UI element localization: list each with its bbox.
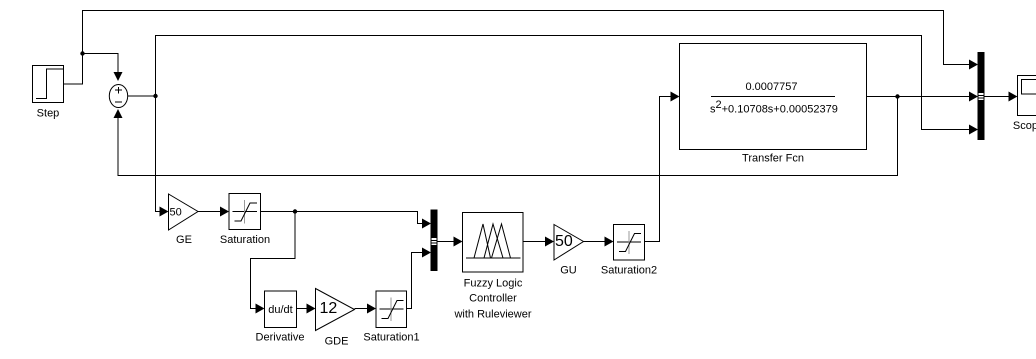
scope Scope bbox=[1013, 76, 1036, 133]
sum junction bbox=[109, 85, 127, 108]
svg-text:Fuzzy Logic: Fuzzy Logic bbox=[464, 278, 523, 290]
saturation Saturation1 bbox=[363, 291, 419, 344]
wire: Step output up to top feed line bbox=[64, 11, 979, 85]
svg-text:GDE: GDE bbox=[325, 336, 349, 348]
svg-text:12: 12 bbox=[320, 300, 338, 317]
svg-text:Derivative: Derivative bbox=[256, 332, 305, 344]
derivative block Derivative bbox=[256, 291, 305, 344]
step source Step bbox=[33, 66, 64, 120]
svg-text:50: 50 bbox=[555, 233, 573, 250]
wire: GDE to Saturation1 bbox=[355, 304, 377, 314]
wire: feedback from junction down to Sum minus input bbox=[114, 97, 898, 176]
wire: Derivative to GDE bbox=[297, 304, 316, 314]
svg-text:Step: Step bbox=[37, 108, 60, 120]
wire: Transfer Fcn output to right mux middle input bbox=[867, 92, 979, 102]
wire: GU to Saturation2 bbox=[584, 237, 614, 247]
wire: Saturation output to left mux top input bbox=[261, 212, 432, 229]
wire: junction down to GE input bbox=[156, 96, 169, 217]
svg-text:Scope: Scope bbox=[1013, 120, 1036, 132]
svg-text:Saturation1: Saturation1 bbox=[363, 332, 419, 344]
mux Mux1 (right) bbox=[978, 53, 984, 140]
wire: error signal to right mux bottom input bbox=[156, 36, 979, 135]
gain GE bbox=[169, 194, 199, 246]
node: junction at Transfer Fcn output bbox=[895, 94, 899, 98]
node: junction on Step output branch bbox=[80, 51, 84, 55]
wire: Mux to Fuzzy Logic Controller bbox=[437, 237, 463, 247]
saturation Saturation bbox=[220, 194, 270, 247]
svg-text:Saturation: Saturation bbox=[220, 234, 270, 246]
fuzzy logic controller with ruleviewer bbox=[453, 213, 531, 321]
wire: Mux1 to Scope bbox=[984, 92, 1018, 102]
svg-text:GE: GE bbox=[176, 234, 192, 246]
wire: GE to Saturation bbox=[198, 207, 229, 217]
svg-text:Transfer Fcn: Transfer Fcn bbox=[742, 153, 804, 165]
svg-text:with Ruleviewer: with Ruleviewer bbox=[453, 309, 531, 321]
gain GU bbox=[554, 225, 584, 277]
svg-text:Saturation2: Saturation2 bbox=[601, 265, 657, 277]
transfer function Transfer Fcn bbox=[680, 44, 867, 165]
svg-text:50: 50 bbox=[170, 207, 182, 219]
gain GDE bbox=[316, 289, 355, 348]
svg-text:0.0007757: 0.0007757 bbox=[746, 81, 798, 93]
mux Mux (left) bbox=[431, 210, 437, 271]
svg-text:GU: GU bbox=[560, 265, 577, 277]
wire: FLC to GU bbox=[523, 237, 554, 247]
wire: junction down and left to Derivative input bbox=[251, 212, 296, 314]
saturation Saturation2 bbox=[601, 225, 657, 277]
node: junction at sum output bbox=[153, 94, 157, 98]
wire: junction to Sum plus input bbox=[83, 54, 123, 82]
svg-text:du/dt: du/dt bbox=[268, 304, 292, 316]
wire: Sum output to junction bbox=[128, 95, 156, 97]
wire: Saturation2 up to Transfer Fcn input bbox=[645, 92, 680, 242]
wire: Saturation1 up to left mux bottom input bbox=[407, 248, 432, 309]
svg-text:Controller: Controller bbox=[469, 293, 517, 305]
node: junction after Saturation bbox=[293, 209, 297, 213]
